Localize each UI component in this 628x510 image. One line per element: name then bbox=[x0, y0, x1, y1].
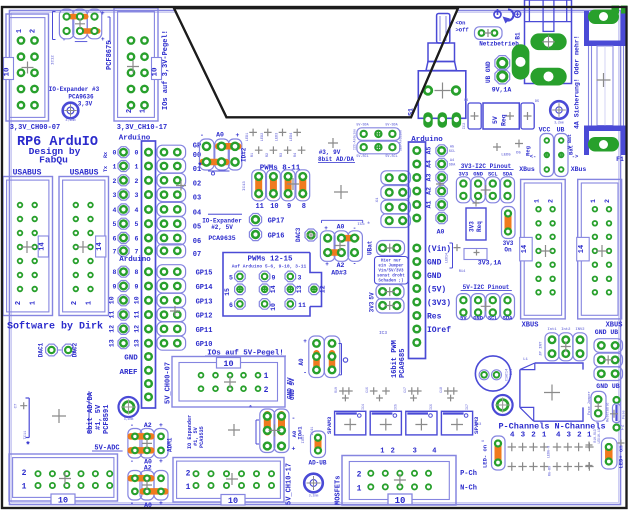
svg-text:TC11: TC11 bbox=[24, 431, 28, 440]
svg-text:8: 8 bbox=[113, 269, 117, 276]
svg-text:5V-SCL: 5V-SCL bbox=[356, 155, 368, 159]
svg-text:1: 1 bbox=[587, 432, 592, 440]
svg-text:R1: R1 bbox=[251, 153, 255, 157]
svg-text:P-Channels N-Channels: P-Channels N-Channels bbox=[498, 422, 605, 432]
svg-text:IC4: IC4 bbox=[361, 404, 365, 410]
svg-text:GND: GND bbox=[124, 355, 138, 363]
title Design by bbox=[29, 146, 81, 157]
svg-text:A2: A2 bbox=[144, 465, 152, 472]
crosshair small left of S1 bbox=[328, 138, 338, 148]
fuse F1 body bbox=[589, 46, 624, 126]
svg-text:Fuse Jumper: Fuse Jumper bbox=[587, 391, 592, 415]
svg-text:P-Ch: P-Ch bbox=[460, 470, 477, 478]
title RP6 ArduIO bbox=[17, 135, 98, 150]
svg-text:DAC1: DAC1 bbox=[38, 342, 45, 357]
label 3,3V_CH10-17 bbox=[117, 124, 167, 132]
svg-text:+: + bbox=[159, 422, 163, 429]
label MOSFETs (vertical) bbox=[335, 476, 343, 505]
jumper 5V select bbox=[369, 285, 405, 300]
svg-text:IC12: IC12 bbox=[52, 55, 56, 65]
svg-text:5V: 5V bbox=[460, 316, 467, 322]
svg-text:INV2: INV2 bbox=[575, 328, 585, 332]
svg-text:3,2mm: 3,2mm bbox=[309, 494, 319, 498]
svg-text:+: + bbox=[303, 338, 307, 345]
svg-text:*: * bbox=[197, 162, 202, 172]
pad DAC3 bbox=[295, 227, 317, 242]
svg-text:Tx: Tx bbox=[103, 166, 109, 172]
svg-text:A0: A0 bbox=[337, 224, 345, 231]
svg-text:LED- on: LED- on bbox=[482, 445, 489, 468]
svg-text:2: 2 bbox=[577, 432, 582, 440]
connector 5V-ADC (bottom-left, 2x6) bbox=[9, 454, 118, 506]
svg-text:A2: A2 bbox=[337, 262, 345, 269]
svg-text:VCC: VCC bbox=[539, 127, 551, 134]
svg-text:LED6-9: LED6-9 bbox=[548, 446, 552, 458]
label 5V-ADC bbox=[92, 445, 123, 453]
label 3V3,1A bbox=[478, 260, 502, 267]
svg-text:IC7: IC7 bbox=[465, 404, 469, 410]
svg-text:GP13: GP13 bbox=[196, 298, 213, 306]
jumper block A0 IO#1 (2x3, vertical orange bridges) bbox=[248, 406, 303, 453]
svg-text:A2: A2 bbox=[144, 422, 152, 429]
svg-text:LED4: LED4 bbox=[290, 132, 294, 141]
svg-text:5V-I2C Pinout: 5V-I2C Pinout bbox=[463, 284, 510, 291]
svg-text:PWMs 12-15: PWMs 12-15 bbox=[247, 256, 293, 264]
svg-text:3,2mm: 3,2mm bbox=[554, 121, 564, 125]
svg-text:V Bat: V Bat bbox=[567, 134, 573, 149]
svg-text:2: 2 bbox=[135, 178, 139, 185]
svg-text:LED3: LED3 bbox=[276, 133, 280, 142]
svg-text:PCA9636: PCA9636 bbox=[68, 94, 94, 101]
svg-text:Rx: Rx bbox=[103, 152, 109, 158]
jumper AD-UB (orange) bbox=[302, 427, 327, 467]
svg-text:C18: C18 bbox=[439, 387, 443, 393]
svg-text:SCL: SCL bbox=[449, 150, 455, 154]
IO expander pad pairs GP10-GP15 bbox=[157, 265, 186, 351]
board cutout notch (trapezoid) bbox=[174, 8, 458, 117]
svg-text:2: 2 bbox=[357, 471, 362, 480]
svg-text:GND: GND bbox=[427, 259, 442, 268]
svg-text:XBUS: XBUS bbox=[522, 322, 539, 330]
svg-text:10: 10 bbox=[270, 303, 277, 311]
label AREF bbox=[119, 369, 138, 377]
svg-text:10: 10 bbox=[109, 296, 116, 304]
label IO Expander #1, 5V PCA9535 (vertical) bbox=[187, 415, 205, 449]
switch S1 shaft bbox=[437, 14, 450, 44]
svg-text:PCA9685: PCA9685 bbox=[399, 349, 407, 378]
svg-text:-: - bbox=[130, 500, 134, 507]
crosshair left of VCC header bbox=[493, 140, 523, 158]
label 3,3V_CH00-07 bbox=[10, 124, 60, 132]
pads DAC1 DAC2 bbox=[38, 342, 79, 357]
svg-text:*: * bbox=[367, 221, 371, 228]
svg-text:IC2: IC2 bbox=[463, 123, 467, 129]
label 5V_CH10-17 (vertical) bbox=[286, 463, 294, 505]
svg-text:-: - bbox=[353, 225, 357, 232]
svg-text:9V,1A: 9V,1A bbox=[492, 87, 512, 94]
svg-text:1: 1 bbox=[534, 199, 541, 203]
fuse F1 top clip and pad bbox=[584, 10, 626, 47]
jumper block A0/A2 AD#3 (3x2, orange bridges) bbox=[320, 220, 370, 276]
svg-text:-: - bbox=[303, 370, 307, 377]
svg-text:5: 5 bbox=[135, 221, 139, 228]
labels XBus select bbox=[519, 166, 586, 173]
svg-text:A0: A0 bbox=[437, 229, 445, 236]
svg-text:GP12: GP12 bbox=[196, 313, 213, 321]
svg-text:GP16: GP16 bbox=[268, 233, 285, 241]
svg-text:11: 11 bbox=[134, 311, 141, 319]
svg-text:R19: R19 bbox=[334, 387, 338, 393]
svg-text:6: 6 bbox=[135, 235, 139, 242]
label P-Channels N-Channels bbox=[498, 422, 605, 432]
svg-text:N-Ch: N-Ch bbox=[460, 485, 477, 493]
LED1-LED4 solder marks bbox=[246, 129, 305, 158]
Arduino analog/power header strip (right) bbox=[409, 142, 426, 359]
svg-text:3: 3 bbox=[521, 432, 526, 440]
pads UB GND (power input) bbox=[485, 56, 510, 84]
svg-text:12: 12 bbox=[109, 325, 116, 333]
svg-text:7: 7 bbox=[113, 248, 117, 255]
label F1 bbox=[616, 156, 624, 163]
svg-text:ID#2: ID#2 bbox=[241, 147, 248, 162]
mounting hole H2 (left of A2 jumpers) bbox=[119, 397, 139, 421]
svg-text:B1: B1 bbox=[515, 32, 522, 40]
svg-text:5V_CH10-17: 5V_CH10-17 bbox=[286, 463, 294, 505]
jumper A0 ID#2 (3x2 with orange bridges) bbox=[197, 132, 247, 176]
svg-text:2: 2 bbox=[604, 199, 611, 203]
label GND bbox=[124, 355, 138, 363]
svg-text:1: 1 bbox=[542, 432, 547, 440]
svg-text:10: 10 bbox=[58, 496, 68, 506]
label asterisk bbox=[25, 441, 30, 451]
label 8bit AD/DA #1, 5V PCF8591 (vertical) bbox=[87, 391, 111, 434]
svg-text:C7: C7 bbox=[15, 403, 19, 408]
svg-text:14: 14 bbox=[521, 245, 529, 253]
crosshair between bottom connectors bbox=[228, 424, 240, 436]
svg-text:UB GND: UB GND bbox=[485, 61, 492, 83]
switch S1 collar bbox=[426, 43, 457, 71]
pads GP17 GP16 bbox=[249, 214, 284, 241]
svg-text:9: 9 bbox=[135, 284, 139, 291]
svg-text:On: On bbox=[504, 247, 512, 254]
svg-text:JP INT: JP INT bbox=[540, 341, 544, 356]
svg-text:1: 1 bbox=[264, 372, 269, 381]
jumper block JP1 (top-left, 3x2 pads) bbox=[53, 9, 111, 43]
svg-text:+: + bbox=[236, 132, 240, 139]
channel numbers 4321 4321 bbox=[510, 432, 592, 440]
svg-text:X1: X1 bbox=[376, 197, 380, 202]
svg-text:4: 4 bbox=[135, 207, 139, 214]
svg-text:AD#3: AD#3 bbox=[331, 270, 347, 277]
svg-text:3: 3 bbox=[567, 432, 572, 440]
svg-text:2: 2 bbox=[30, 29, 38, 33]
fuse F1 bottom clip and pad bbox=[584, 126, 626, 156]
svg-text:#2, 5V: #2, 5V bbox=[211, 224, 233, 231]
switch S1 terminals bbox=[423, 112, 461, 127]
block 3V3-I2C Pinout bbox=[456, 163, 514, 203]
svg-text:F2: F2 bbox=[620, 424, 626, 430]
svg-text:(Vin): (Vin) bbox=[427, 245, 451, 254]
battery holder B1 bbox=[512, 0, 572, 86]
transistor Q2 (SPAM3) bbox=[370, 411, 401, 435]
jumper LED- on (orange) bbox=[482, 436, 506, 470]
corner pads (top right) bbox=[612, 6, 628, 14]
svg-text:5V-SDA: 5V-SDA bbox=[385, 124, 398, 128]
svg-text:LED5: LED5 bbox=[501, 154, 511, 158]
svg-text:3: 3 bbox=[135, 192, 139, 199]
label Arduino (digital 8-13) bbox=[119, 256, 151, 264]
svg-text:10: 10 bbox=[395, 496, 406, 506]
svg-text:-: - bbox=[353, 261, 357, 268]
svg-text:SPAM3: SPAM3 bbox=[326, 416, 333, 434]
svg-text:-: - bbox=[200, 132, 204, 139]
svg-text:G: G bbox=[482, 440, 486, 442]
svg-text:GND UB: GND UB bbox=[596, 383, 620, 390]
svg-text:15: 15 bbox=[224, 288, 231, 296]
label IC2 bbox=[463, 123, 467, 129]
svg-text:PCA9535: PCA9535 bbox=[199, 426, 205, 448]
jumper UBat bbox=[367, 240, 405, 255]
svg-text:>Off: >Off bbox=[456, 27, 470, 34]
svg-text:1: 1 bbox=[30, 301, 38, 305]
svg-text:A2: A2 bbox=[426, 187, 433, 195]
svg-text:R3: R3 bbox=[280, 153, 284, 157]
svg-text:SPAM3: SPAM3 bbox=[473, 416, 480, 434]
label VCC UB bbox=[539, 127, 565, 134]
labels On/Off bbox=[456, 20, 470, 34]
svg-text:I2C-Arduino: I2C-Arduino bbox=[353, 129, 357, 150]
svg-text:PCF8591: PCF8591 bbox=[103, 405, 111, 434]
svg-text:D5: D5 bbox=[535, 100, 539, 104]
inductor L1 box bbox=[520, 358, 583, 421]
svg-text:1: 1 bbox=[135, 164, 139, 171]
capacitor C4 box bbox=[464, 99, 481, 129]
svg-text:11: 11 bbox=[109, 311, 116, 319]
svg-text:8bit AD/DA: 8bit AD/DA bbox=[318, 156, 354, 163]
svg-text:4: 4 bbox=[432, 448, 436, 456]
svg-text:+: + bbox=[101, 36, 105, 43]
connector X1 3,3V_CH00-07 bbox=[4, 14, 49, 121]
jumper block PWMs 8-11 (4 columns, orange bridges) bbox=[243, 165, 310, 212]
svg-text:PWMs 8-11: PWMs 8-11 bbox=[260, 165, 301, 173]
svg-text:A1: A1 bbox=[426, 201, 433, 209]
label GND 5V right of 5V_CH00-07 (vertical) bbox=[287, 377, 294, 399]
svg-text:GND 5V: GND 5V bbox=[287, 377, 294, 399]
note box (Hier nur ein Jumper...) bbox=[375, 257, 409, 285]
label XBUS left bbox=[522, 322, 539, 330]
svg-text:-: - bbox=[130, 458, 134, 465]
svg-text:9: 9 bbox=[287, 203, 291, 211]
svg-text:1: 1 bbox=[590, 199, 597, 203]
svg-text:A5: A5 bbox=[426, 147, 433, 155]
mounting hole H1 bbox=[63, 103, 79, 123]
svg-text:6: 6 bbox=[113, 235, 117, 242]
svg-text:5V-SDA: 5V-SDA bbox=[356, 124, 369, 128]
crosshair middle bbox=[334, 185, 348, 199]
label 9V,1A bbox=[492, 87, 512, 94]
svg-text:Vin/5V/3V3: Vin/5V/3V3 bbox=[378, 269, 404, 274]
passives above MOSFETs (crosses) bbox=[334, 387, 469, 410]
svg-text:IOs auf 3,3V-Pegel!: IOs auf 3,3V-Pegel! bbox=[162, 30, 170, 110]
svg-text:GP15: GP15 bbox=[196, 270, 213, 278]
label 5V_CH00-07 (vertical, left) bbox=[165, 362, 173, 404]
svg-text:2: 2 bbox=[113, 178, 117, 185]
label GND UB (upper) bbox=[595, 329, 619, 336]
label GND 5V (vertical) bbox=[289, 378, 296, 400]
svg-text:D5: D5 bbox=[516, 152, 521, 156]
svg-text:Software by Dirk: Software by Dirk bbox=[7, 321, 103, 333]
tiny ref IC12 bbox=[52, 55, 56, 65]
header GND/UB (2x3) bbox=[594, 339, 623, 381]
svg-text:R14: R14 bbox=[459, 270, 466, 274]
svg-text:UBat: UBat bbox=[367, 240, 374, 255]
svg-text:12: 12 bbox=[134, 325, 141, 333]
svg-text:0: 0 bbox=[135, 150, 139, 157]
jumper 3V3 select bbox=[369, 299, 405, 314]
label V Bat (vertical) bbox=[567, 134, 573, 149]
svg-text:Res: Res bbox=[427, 313, 442, 322]
svg-text:3: 3 bbox=[113, 192, 117, 199]
svg-text:A0: A0 bbox=[216, 132, 224, 139]
svg-text:14: 14 bbox=[38, 242, 46, 250]
svg-text:XBus: XBus bbox=[519, 166, 535, 173]
svg-text:10: 10 bbox=[270, 203, 278, 211]
svg-text:3: 3 bbox=[298, 275, 302, 282]
jumper block A0 (2x3, vertical orange bridges) bbox=[298, 336, 348, 378]
svg-text:(3V3): (3V3) bbox=[427, 299, 451, 308]
component 3V3 Req (regulator) bbox=[446, 200, 488, 269]
svg-text:13: 13 bbox=[109, 339, 116, 347]
svg-text:Hier nur: Hier nur bbox=[381, 259, 402, 264]
svg-text:4: 4 bbox=[113, 207, 117, 214]
svg-text:-: - bbox=[130, 422, 134, 429]
svg-text:IO-Expander #3: IO-Expander #3 bbox=[49, 86, 100, 93]
svg-text:AREF: AREF bbox=[119, 369, 138, 377]
svg-text:Int1: Int1 bbox=[547, 328, 557, 332]
svg-text:C1A: C1A bbox=[506, 374, 510, 381]
svg-text:1: 1 bbox=[186, 483, 191, 492]
svg-text:A0: A0 bbox=[298, 358, 305, 366]
svg-text:2: 2 bbox=[71, 301, 79, 305]
svg-text:9: 9 bbox=[113, 284, 117, 291]
svg-text:Int2: Int2 bbox=[561, 328, 571, 332]
svg-text:A4: A4 bbox=[426, 160, 433, 168]
svg-text:+: + bbox=[292, 446, 296, 453]
connector XBUS left bbox=[520, 179, 565, 319]
svg-text:LED1: LED1 bbox=[246, 133, 250, 142]
svg-text:1: 1 bbox=[113, 164, 117, 171]
label Arduino (digital 0-7) bbox=[119, 135, 151, 143]
svg-text:IC3: IC3 bbox=[379, 330, 387, 336]
connector 5V_CH00-07 bbox=[172, 357, 285, 408]
switch S1 body bbox=[418, 71, 466, 119]
svg-text:+: + bbox=[63, 39, 66, 44]
label IOs auf 5V-Pegel! bbox=[205, 350, 286, 358]
connector USABUS-1 bbox=[3, 177, 53, 316]
svg-text:#3, 9V: #3, 9V bbox=[319, 149, 341, 156]
svg-text:7: 7 bbox=[135, 248, 139, 255]
Arduino long header strip (left) bbox=[142, 141, 156, 408]
svg-text:GP14: GP14 bbox=[196, 284, 213, 292]
svg-text:2: 2 bbox=[126, 109, 134, 113]
capacitor D5 box bbox=[521, 100, 539, 129]
svg-text:11: 11 bbox=[255, 203, 263, 211]
svg-text:06: 06 bbox=[193, 238, 201, 246]
svg-text:05: 05 bbox=[193, 224, 201, 232]
svg-text:3V3-I2C Pinout: 3V3-I2C Pinout bbox=[461, 163, 512, 170]
svg-text:A5: A5 bbox=[450, 146, 454, 150]
mounting hole H3 (top right) bbox=[550, 101, 568, 124]
svg-text:8: 8 bbox=[135, 269, 139, 276]
label PCF8675 (vertical) bbox=[106, 41, 114, 70]
block PWMs 12-15 bbox=[223, 253, 327, 317]
Arduino digital pins 0-7 (pads with side digits) bbox=[103, 147, 139, 257]
svg-text:FabQu: FabQu bbox=[39, 155, 68, 166]
capacitor C7 bbox=[15, 398, 30, 439]
label SPAM3 left bbox=[326, 416, 333, 434]
board cutout notch outline overlay bbox=[174, 8, 458, 117]
labels P-Ch N-Ch bbox=[460, 470, 477, 493]
svg-text:UB: UB bbox=[557, 127, 565, 134]
label Software by Dirk bbox=[7, 321, 103, 333]
connector 5V_CH10-17 (bottom middle, 2x6) bbox=[173, 458, 284, 507]
svg-text:10: 10 bbox=[4, 67, 12, 77]
svg-text:1: 1 bbox=[380, 448, 384, 456]
svg-text:13: 13 bbox=[134, 339, 141, 347]
svg-text:2: 2 bbox=[186, 470, 191, 479]
pads A5-A0 (octagon, right of header) bbox=[426, 145, 457, 236]
svg-text:2: 2 bbox=[264, 386, 269, 395]
svg-text:2: 2 bbox=[22, 469, 27, 478]
svg-text:DAC2: DAC2 bbox=[72, 342, 79, 357]
label IOs auf 3,3V-Pegel! (vertical) bbox=[162, 30, 170, 110]
svg-text:3V3: 3V3 bbox=[369, 301, 376, 312]
svg-text:3,3V: 3,3V bbox=[78, 101, 93, 108]
svg-text:I2C-Arduino: I2C-Arduino bbox=[399, 130, 403, 151]
labels C14/E14 bbox=[506, 368, 515, 375]
svg-text:C14: C14 bbox=[506, 368, 510, 375]
label GND UB (lower) bbox=[596, 383, 620, 390]
labels GP15-GP10 bbox=[196, 270, 213, 350]
svg-text:AD-UB: AD-UB bbox=[308, 460, 326, 467]
svg-text:PCF8675: PCF8675 bbox=[106, 41, 114, 70]
fuse F2 (resettable) bbox=[606, 397, 627, 431]
svg-text:1: 1 bbox=[140, 109, 148, 113]
svg-text:1: 1 bbox=[86, 301, 94, 305]
svg-text:LED2: LED2 bbox=[261, 133, 265, 142]
svg-text:6: 6 bbox=[229, 302, 233, 309]
header block X1 (2x4) bbox=[376, 171, 410, 228]
labels GP 00-07 bbox=[193, 143, 201, 259]
transistor Q1 (SPAM3) bbox=[335, 411, 366, 435]
svg-text:->: -> bbox=[572, 153, 579, 160]
power symbol bbox=[494, 9, 521, 24]
svg-text:3,3V_CH00-07: 3,3V_CH00-07 bbox=[10, 124, 60, 132]
header VCC/UB select (2x3) bbox=[525, 134, 579, 177]
transistor Q4 (SPAM3) bbox=[441, 411, 472, 435]
svg-text:2: 2 bbox=[15, 301, 23, 305]
svg-text:SDA: SDA bbox=[503, 316, 513, 322]
label USABUS (left) bbox=[13, 169, 42, 178]
svg-text:12: 12 bbox=[320, 285, 327, 293]
svg-text:L1: L1 bbox=[523, 358, 528, 362]
jumper LED+ on (orange) bbox=[602, 438, 625, 469]
crosshair (8bit AD/DA center) bbox=[52, 409, 66, 423]
svg-text:<-: <- bbox=[530, 153, 537, 160]
svg-text:LED10-13: LED10-13 bbox=[597, 428, 601, 443]
svg-text:3V3: 3V3 bbox=[469, 221, 476, 232]
svg-text:<On: <On bbox=[456, 20, 466, 27]
